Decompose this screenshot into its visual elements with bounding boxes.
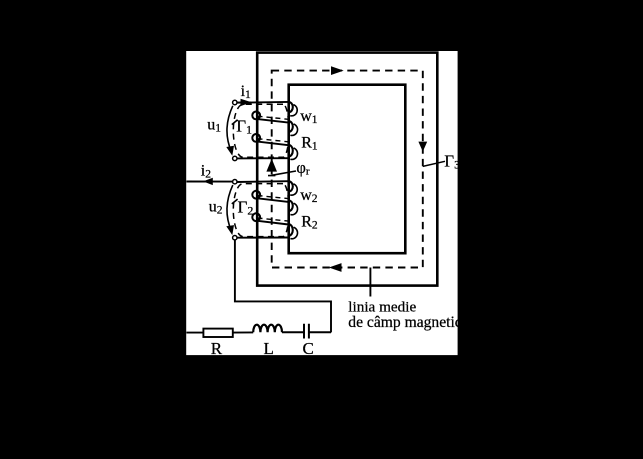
svg-text:linia medie: linia medie	[348, 298, 416, 315]
svg-text:L: L	[264, 339, 274, 358]
svg-text:C: C	[303, 339, 314, 358]
svg-text:Γ3: Γ3	[444, 151, 460, 171]
svg-text:R: R	[211, 339, 223, 358]
svg-text:de câmp magnetic: de câmp magnetic	[348, 314, 462, 331]
